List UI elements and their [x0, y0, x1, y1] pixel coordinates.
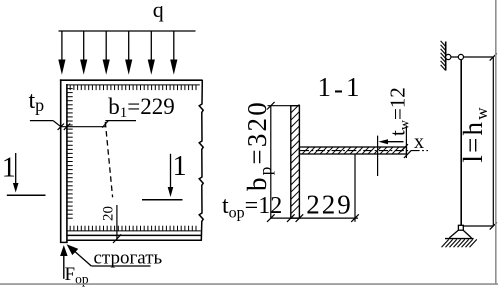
l dimension slash top: [490, 53, 497, 60]
b1 shelf line: [105, 120, 136, 122]
load arrow 2: [80, 31, 87, 75]
t_p shelf line: [30, 120, 53, 122]
column member: [460, 60, 462, 226]
svg-text:b1=229: b1=229: [108, 94, 174, 121]
load arrow 3: [103, 31, 110, 75]
строгать underline: [91, 265, 150, 267]
t_p leader: [53, 121, 61, 127]
ground hatching: [442, 239, 477, 247]
svg-text:1-1: 1-1: [318, 72, 363, 104]
web break edge (zigzag): [199, 80, 203, 241]
link line top: [446, 56, 494, 58]
b_p extension line top: [268, 105, 291, 107]
plate top edge: [60, 79, 203, 81]
ground line: [445, 238, 474, 240]
svg-text:bp=320: bp=320: [242, 100, 275, 191]
wall line (top support): [445, 42, 447, 71]
20 dimension slash: [113, 234, 121, 243]
bottom weld seam comb: [67, 226, 201, 231]
bottom dimension line: [271, 217, 358, 219]
строгать leader: [72, 249, 91, 266]
load arrow 4: [125, 31, 132, 75]
left weld seam comb: [67, 89, 73, 219]
web end slashes: [401, 144, 411, 158]
b1 dimension slash: [102, 120, 108, 127]
bottom dimension slashes: [287, 214, 359, 222]
svg-text:229: 229: [306, 190, 353, 220]
section trace line left: [7, 194, 46, 196]
section mark right arrow: [168, 154, 174, 197]
x axis dash-dot line: [300, 150, 428, 152]
load arrow 1: [58, 31, 65, 75]
b1 dimension line: [61, 126, 106, 128]
web bottom edge: [67, 234, 202, 236]
force F_op arrow: [60, 245, 68, 279]
top weld seam comb: [67, 85, 200, 90]
page border right (gray): [495, 0, 497, 285]
l dimension line: [492, 57, 494, 226]
svg-text:x: x: [414, 131, 424, 153]
rib plate hatching: [291, 104, 300, 213]
web plate hatching: [302, 147, 405, 154]
svg-text:1: 1: [173, 151, 187, 182]
rib outer edge (left vertical): [60, 79, 62, 243]
b_p dimension slashes: [267, 102, 275, 222]
web plate section outline: [299, 147, 406, 154]
t_p dimension slashes: [58, 124, 71, 130]
link hinge circle 1: [446, 54, 451, 59]
b_p dimension line: [270, 106, 272, 218]
l dimension slash bottom: [490, 222, 497, 229]
svg-text:1: 1: [2, 153, 16, 184]
wall hatching: [441, 41, 446, 71]
link hinge circle 2: [458, 54, 463, 59]
svg-text:q: q: [153, 0, 164, 22]
t_w leader arrow: [378, 139, 403, 144]
section mark left arrow: [13, 153, 19, 193]
flange lower edge: [67, 239, 202, 241]
load arrow 6: [170, 31, 177, 75]
svg-text:20: 20: [100, 206, 116, 221]
t_w dimension line (vertical through web): [377, 136, 379, 176]
rib bottom cap: [60, 241, 68, 243]
distributed load line: [59, 30, 196, 32]
229 extension line: [354, 154, 356, 222]
load arrow 5: [148, 31, 155, 75]
rib inner edge / web left edge: [66, 84, 68, 243]
rib plate section outline: [291, 106, 300, 218]
pin support triangle legs: [449, 230, 471, 238]
строгать arrowhead: [67, 244, 79, 255]
pin square: [458, 225, 463, 230]
web end extension line: [405, 126, 407, 159]
20 extension line: [116, 205, 118, 241]
bottom tie line: [463, 225, 493, 227]
section trace line right: [142, 199, 183, 201]
dashed line (weld boundary): [105, 122, 112, 197]
page border bottom (gray): [0, 283, 498, 285]
